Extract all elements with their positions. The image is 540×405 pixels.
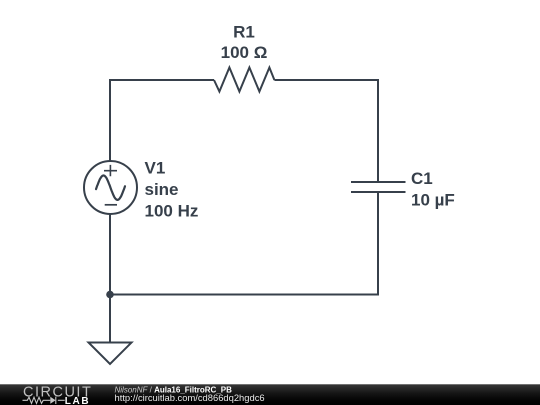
svg-text:LAB: LAB	[65, 396, 91, 405]
junction node (bottom-left)	[106, 291, 114, 299]
svg-text:V1: V1	[145, 159, 166, 178]
wire top-right (R1 to C1 top)	[274, 80, 378, 181]
svg-text:sine: sine	[145, 180, 179, 199]
svg-text:C1: C1	[411, 169, 433, 188]
svg-text:100 Ω: 100 Ω	[221, 43, 268, 62]
wire V1 minus to bottom net	[109, 214, 111, 295]
capacitor C1	[351, 182, 406, 192]
svg-text:10 µF: 10 µF	[411, 191, 455, 210]
ground	[89, 343, 132, 365]
svg-text:100 Hz: 100 Hz	[145, 202, 199, 221]
resistor R1	[214, 68, 274, 92]
svg-text:http://circuitlab.com/cd866dq2: http://circuitlab.com/cd866dq2hgdc6	[115, 392, 265, 403]
svg-text:R1: R1	[233, 23, 255, 42]
logo wire with resistor and diode	[23, 397, 65, 404]
wire top-left (node from V1+ up and across to R1)	[110, 80, 214, 162]
wire bottom net (C1 bottom down and across to junction)	[110, 193, 378, 295]
voltage source V1	[84, 161, 137, 214]
footer bar	[0, 384, 540, 405]
wire bottom net to ground	[109, 295, 111, 343]
